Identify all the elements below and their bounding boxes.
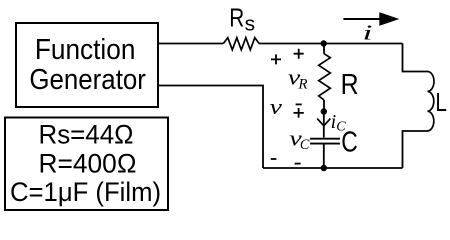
svg-text:R: R [341, 69, 359, 101]
wire from generator bottom, down to bottom rail [158, 86, 263, 169]
resistor R [319, 44, 331, 112]
svg-text:i: i [363, 21, 373, 45]
resistor Rs [223, 38, 259, 50]
node B (R-C junction) [321, 108, 327, 114]
wire right side bottom (inductor to rail) [403, 131, 428, 168]
parameter box [5, 118, 168, 211]
svg-text:R: R [297, 76, 307, 92]
label Rs [229, 3, 255, 36]
sign - (v bottom) [271, 158, 277, 160]
svg-text:v: v [270, 94, 283, 119]
node C (bottom junction) [321, 165, 327, 171]
wire top from Rs to top-right corner [259, 43, 402, 45]
current arrow i [343, 12, 399, 26]
svg-text:Generator: Generator [29, 64, 146, 96]
capacitor C [310, 139, 340, 168]
inductor L [428, 72, 434, 132]
svg-text:C: C [300, 137, 310, 153]
svg-text:Function: Function [35, 34, 135, 66]
wire right side top (corner to inductor) [403, 44, 428, 72]
svg-text:R: R [229, 3, 244, 33]
sign - (vR bottom) [296, 103, 302, 105]
svg-text:s: s [245, 14, 256, 36]
svg-text:Rs=44Ω: Rs=44Ω [39, 119, 134, 149]
wire with iC arrowhead from node B to capacitor [317, 112, 330, 138]
svg-text:C=1μF (Film): C=1μF (Film) [10, 177, 161, 207]
sign - (vC bottom) [295, 163, 301, 165]
sign + (vC top) [294, 108, 304, 118]
svg-text:R=400Ω: R=400Ω [39, 148, 137, 178]
svg-text:C: C [341, 126, 358, 158]
svg-text:L: L [435, 87, 447, 117]
sign + (v, left column top) [271, 54, 281, 64]
label iC [331, 111, 347, 134]
node A (top junction) [321, 40, 327, 46]
bottom rail wire [263, 167, 403, 169]
label vR [288, 65, 308, 93]
wire top from generator to Rs [158, 43, 223, 45]
function generator box [16, 23, 158, 107]
sign + (vR top) [294, 49, 304, 59]
label vC [289, 125, 310, 153]
